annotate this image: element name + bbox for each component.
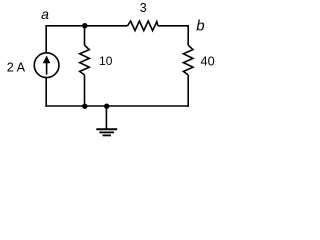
svg-text:10: 10 xyxy=(99,54,113,68)
svg-text:2 A: 2 A xyxy=(7,61,26,75)
resistor R10 (10 ohm, vertical) xyxy=(80,45,90,75)
wire below R40 xyxy=(187,75,189,107)
current source I1 circle xyxy=(34,53,59,78)
wire bottom horizontal xyxy=(45,105,189,107)
wire below current source xyxy=(45,78,47,107)
wire left vertical (source top to node a corner) xyxy=(45,26,47,53)
ground xyxy=(96,106,117,135)
wire R3 to node b corner xyxy=(158,26,188,45)
resistor R40 (40 ohm, vertical) xyxy=(183,45,193,75)
junction node at R10 bottom xyxy=(82,104,87,109)
junction node at ground tap xyxy=(104,104,109,109)
resistor R3 (3 ohm, horizontal) xyxy=(128,21,159,31)
svg-text:a: a xyxy=(41,6,49,22)
svg-text:b: b xyxy=(196,18,204,35)
current source I1 arrow xyxy=(43,56,51,75)
svg-text:40: 40 xyxy=(201,55,215,69)
wire top horizontal (a corner to R3) xyxy=(45,25,127,27)
wire R10 top lead xyxy=(84,26,86,45)
junction node at a/R10 top xyxy=(82,23,87,28)
svg-text:3: 3 xyxy=(140,0,147,15)
wire R10 bottom lead xyxy=(84,75,86,106)
